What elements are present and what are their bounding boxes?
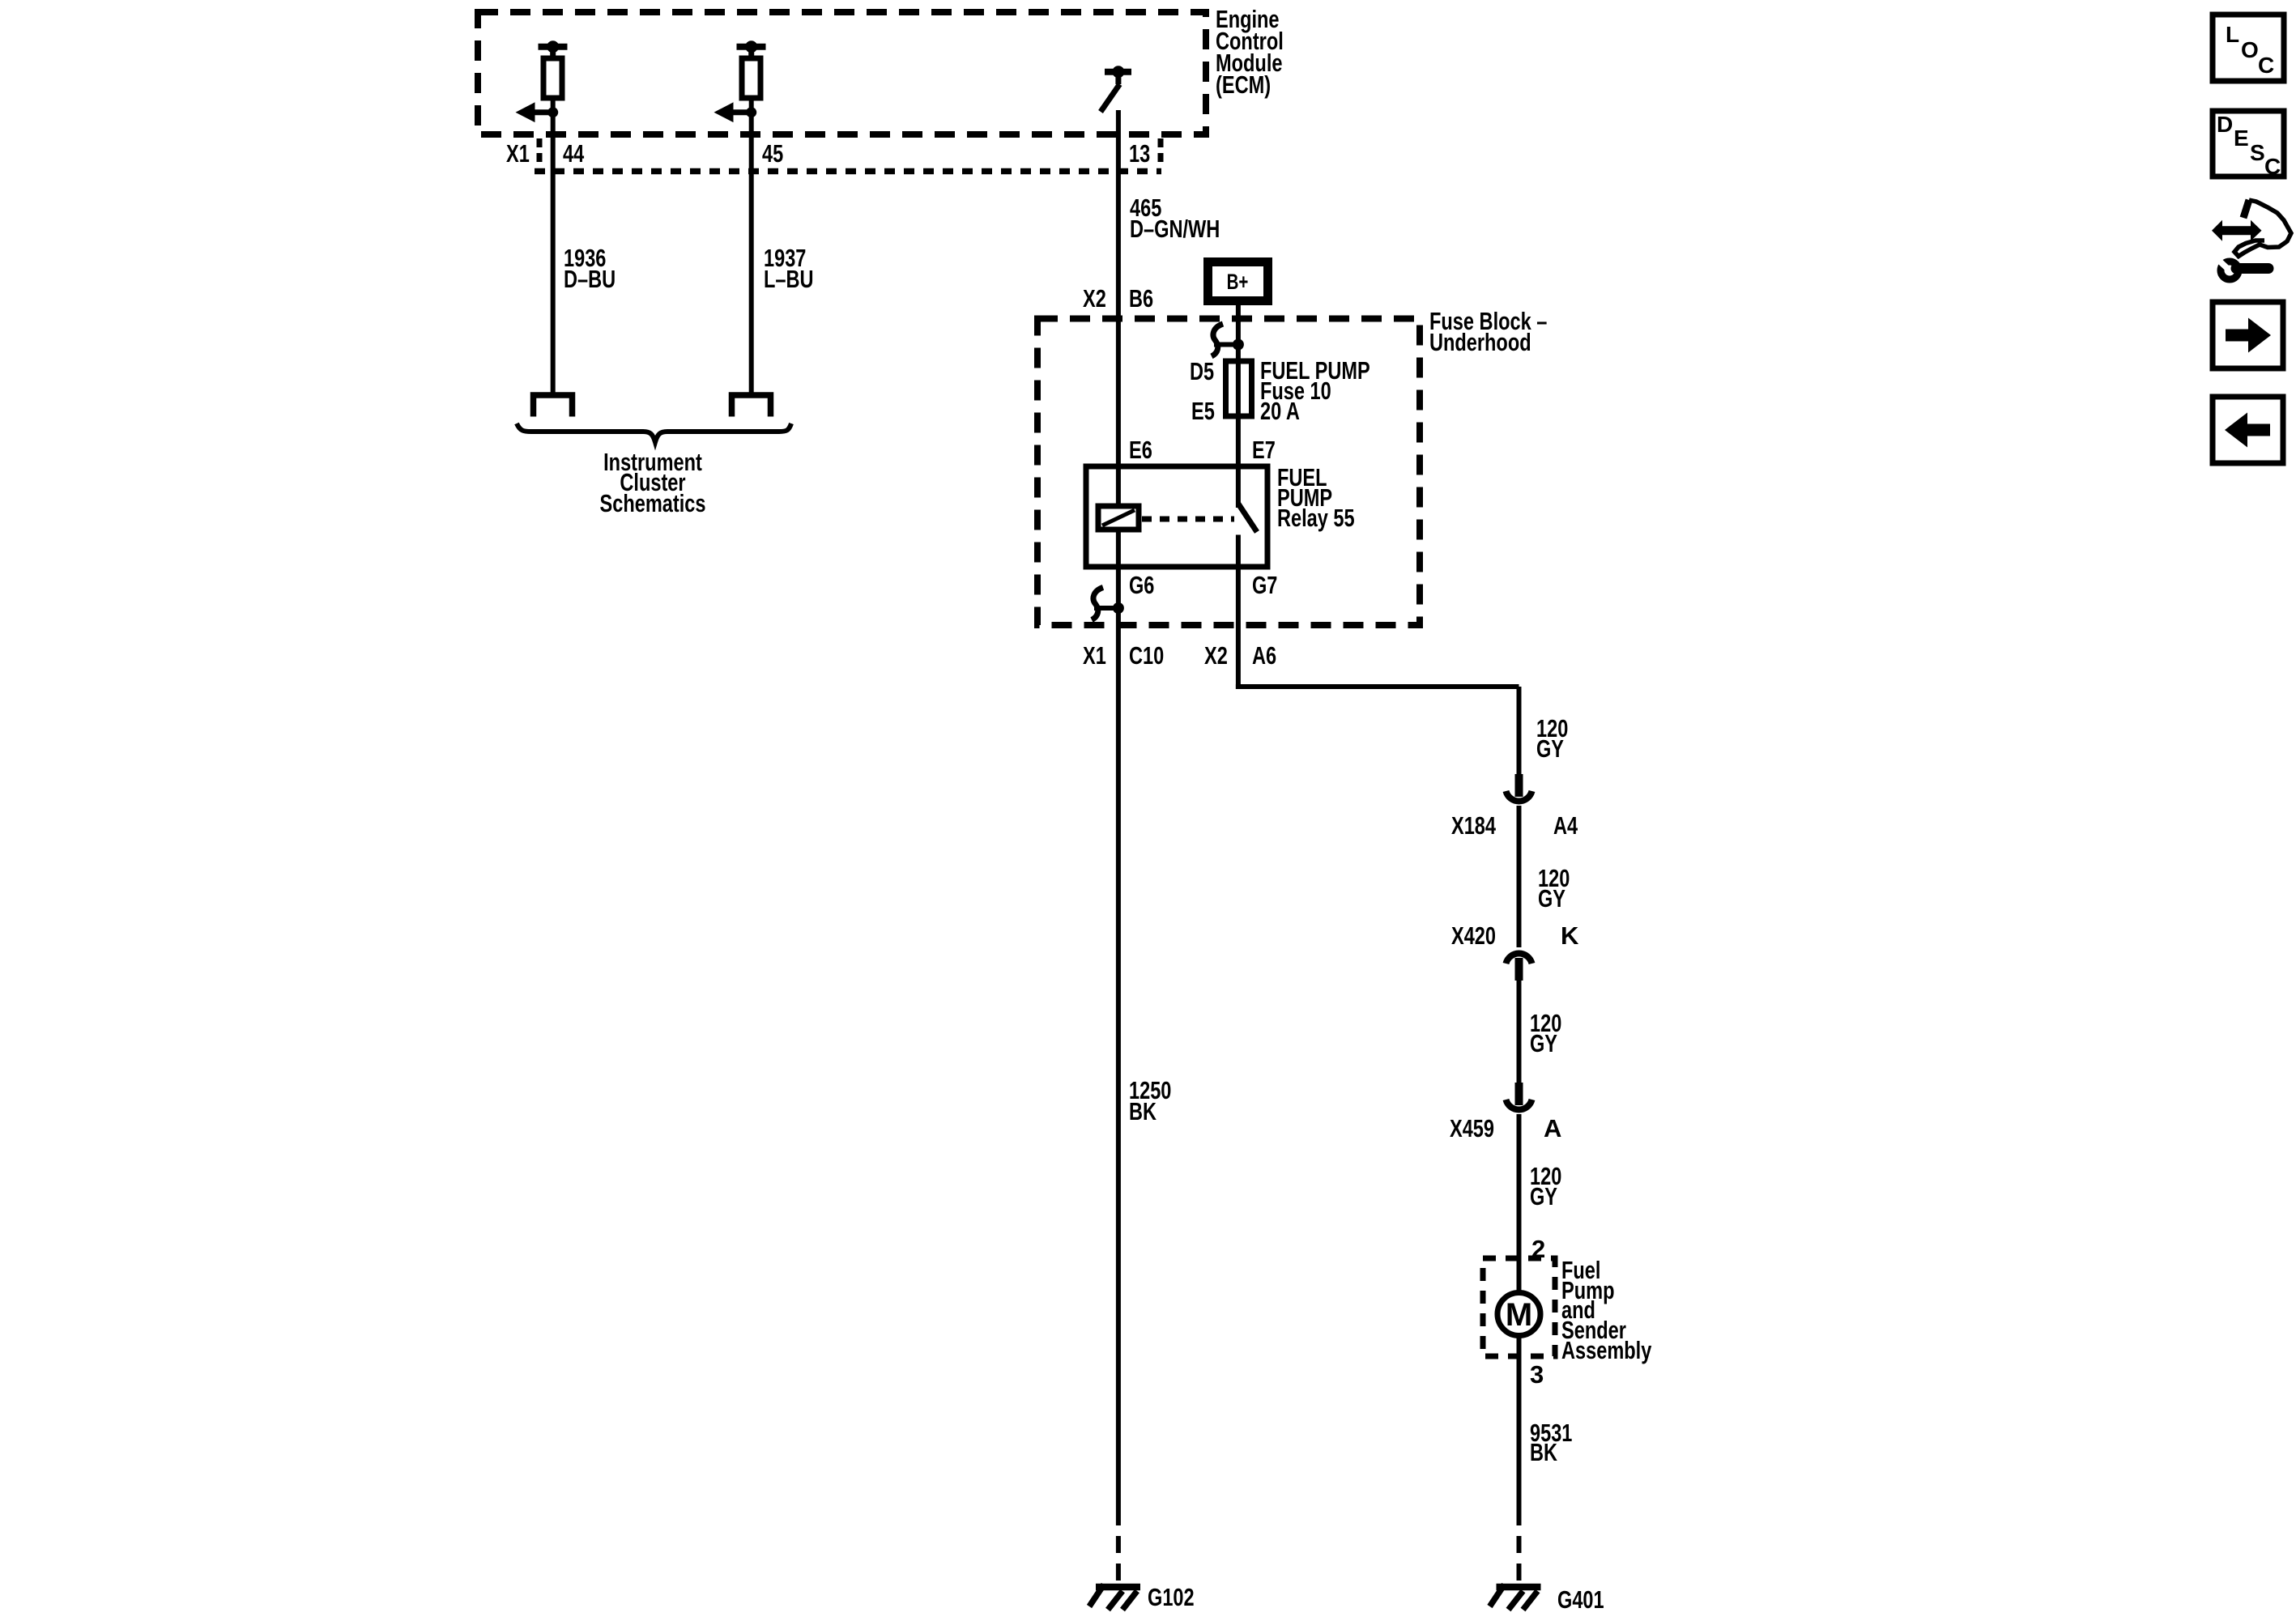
svg-text:G7: G7 — [1252, 571, 1277, 599]
svg-text:GY: GY — [1538, 884, 1565, 913]
svg-text:Assembly: Assembly — [1561, 1336, 1652, 1364]
icon diagnostic wrench — [2212, 200, 2291, 279]
svg-text:A4: A4 — [1553, 811, 1578, 840]
svg-text:GY: GY — [1530, 1182, 1557, 1210]
svg-text:X2: X2 — [1204, 641, 1228, 670]
battery feed B+ — [1203, 257, 1272, 305]
ground G401 — [1490, 1585, 1541, 1610]
svg-text:BK: BK — [1129, 1097, 1157, 1125]
terminal pin 45 — [732, 395, 771, 417]
svg-text:X2: X2 — [1083, 284, 1106, 313]
svg-text:G102: G102 — [1148, 1583, 1195, 1611]
svg-text:Relay 55: Relay 55 — [1277, 504, 1355, 532]
wire label 120 GY (4) — [1530, 1162, 1561, 1210]
wire circuit 465 (ECM pin 13 down to G102) — [1116, 110, 1121, 1508]
fuse block label — [1429, 307, 1547, 356]
brace Instrument Cluster Schematics — [517, 423, 791, 517]
svg-text:K: K — [1561, 921, 1579, 950]
svg-text:E6: E6 — [1129, 436, 1152, 464]
svg-text:B+: B+ — [1227, 270, 1249, 294]
svg-text:D5: D5 — [1190, 357, 1214, 385]
svg-text:X184: X184 — [1451, 811, 1497, 840]
pin labels X1 44 45 13 — [506, 139, 1150, 168]
driver element (pin 44) inside ECM — [539, 40, 568, 98]
wire label 1936 D-BU — [564, 244, 616, 293]
svg-text:D: D — [2217, 112, 2233, 137]
wire X184 to X420 — [1517, 806, 1522, 947]
connector row X1 dotted line — [535, 138, 1161, 172]
wire label 1250 BK — [1129, 1076, 1171, 1125]
fuel pump and sender assembly box — [1483, 1258, 1555, 1356]
svg-text:L–BU: L–BU — [764, 265, 814, 293]
svg-text:44: 44 — [563, 139, 585, 168]
fuse FUEL PUMP Fuse 10 20A — [1226, 361, 1252, 416]
wire X459 to fuel pump — [1517, 1114, 1522, 1293]
svg-text:D–GN/WH: D–GN/WH — [1130, 215, 1220, 243]
svg-text:X1: X1 — [506, 139, 530, 168]
svg-text:G401: G401 — [1557, 1585, 1604, 1614]
wire dashed tail to G401 — [1517, 1508, 1522, 1584]
svg-text:O: O — [2241, 37, 2259, 62]
svg-text:GY: GY — [1530, 1029, 1557, 1057]
wire label 120 GY (1) — [1536, 714, 1568, 763]
svg-text:GY: GY — [1536, 734, 1564, 763]
driver element (pin 45) inside ECM — [737, 40, 766, 98]
svg-text:L: L — [2226, 22, 2239, 47]
svg-text:X1: X1 — [1083, 641, 1106, 670]
svg-text:Underhood: Underhood — [1429, 328, 1531, 356]
svg-text:G6: G6 — [1129, 571, 1154, 599]
inline connector X459 A — [1450, 1083, 1561, 1142]
svg-text:S: S — [2250, 140, 2265, 165]
wire label 120 GY (3) — [1530, 1009, 1561, 1057]
wire relay output to fuel pump — [1236, 535, 1519, 780]
svg-text:X459: X459 — [1450, 1114, 1494, 1142]
wire label 9531 BK — [1530, 1419, 1572, 1466]
wire label 1937 L-BU — [764, 244, 814, 293]
pin row labels X1 C10 X2 A6 — [1083, 641, 1276, 670]
inline connector X420 K — [1451, 921, 1579, 981]
svg-text:C: C — [2258, 53, 2274, 78]
output arrow (pin 44) — [516, 102, 559, 122]
svg-text:B6: B6 — [1129, 284, 1153, 313]
icon arrow back box — [2213, 397, 2283, 463]
svg-text:Schematics: Schematics — [600, 489, 706, 517]
ground G102 — [1089, 1585, 1140, 1610]
connector label X2 B6 — [1083, 284, 1153, 313]
wire X420 to X459 — [1517, 976, 1522, 1087]
clip splice at G6 — [1092, 588, 1124, 620]
svg-text:13: 13 — [1129, 139, 1150, 168]
svg-text:D–BU: D–BU — [564, 265, 616, 293]
wire label 120 GY (2) — [1538, 864, 1570, 913]
svg-text:E5: E5 — [1191, 397, 1215, 425]
relay label — [1277, 463, 1355, 532]
icon LOC box — [2213, 15, 2284, 81]
switch symbol (pin 13) inside ECM — [1101, 66, 1131, 112]
svg-text:20 A: 20 A — [1260, 397, 1300, 425]
ECM Engine Control Module box — [478, 12, 1206, 134]
svg-text:BK: BK — [1530, 1438, 1557, 1466]
icon arrow forward box — [2213, 302, 2283, 368]
output arrow (pin 45) — [714, 102, 757, 122]
svg-text:C: C — [2264, 154, 2281, 179]
terminal pin 44 — [534, 395, 573, 417]
svg-text:A6: A6 — [1252, 641, 1276, 670]
wire circuit 1937 — [749, 98, 754, 396]
wire dashed tail to G102 — [1116, 1508, 1121, 1584]
fuse label — [1260, 356, 1370, 425]
svg-text:E7: E7 — [1252, 436, 1276, 464]
svg-text:X420: X420 — [1451, 921, 1496, 950]
relay box FUEL PUMP Relay 55 — [1086, 466, 1267, 567]
svg-text:(ECM): (ECM) — [1216, 70, 1271, 99]
svg-text:C10: C10 — [1129, 641, 1164, 670]
wire circuit 1936 — [551, 98, 556, 396]
wire B+ down to relay switch — [1236, 305, 1241, 508]
relay pin labels E6 E7 G6 G7 — [1129, 436, 1277, 599]
icon DESC box — [2213, 111, 2284, 179]
svg-text:3: 3 — [1530, 1360, 1544, 1389]
wire label 465 D-GN/WH — [1130, 194, 1220, 243]
fuse pin labels D5 E5 — [1190, 357, 1215, 425]
relay switch blade — [1238, 504, 1257, 532]
svg-text:45: 45 — [762, 139, 783, 168]
svg-text:M: M — [1506, 1297, 1532, 1333]
inline connector X184 A4 — [1451, 774, 1578, 840]
svg-text:E: E — [2234, 126, 2249, 151]
wire fuel pump to G401 — [1517, 1335, 1522, 1508]
ECM label — [1216, 5, 1284, 99]
relay coil — [1098, 506, 1139, 530]
relay linkage dashed — [1142, 517, 1234, 522]
clip splice at D5 — [1212, 324, 1244, 356]
fuse block underhood box — [1037, 319, 1420, 626]
svg-text:A: A — [1544, 1114, 1561, 1142]
fuel pump assembly label — [1561, 1256, 1652, 1364]
motor M — [1497, 1293, 1540, 1336]
